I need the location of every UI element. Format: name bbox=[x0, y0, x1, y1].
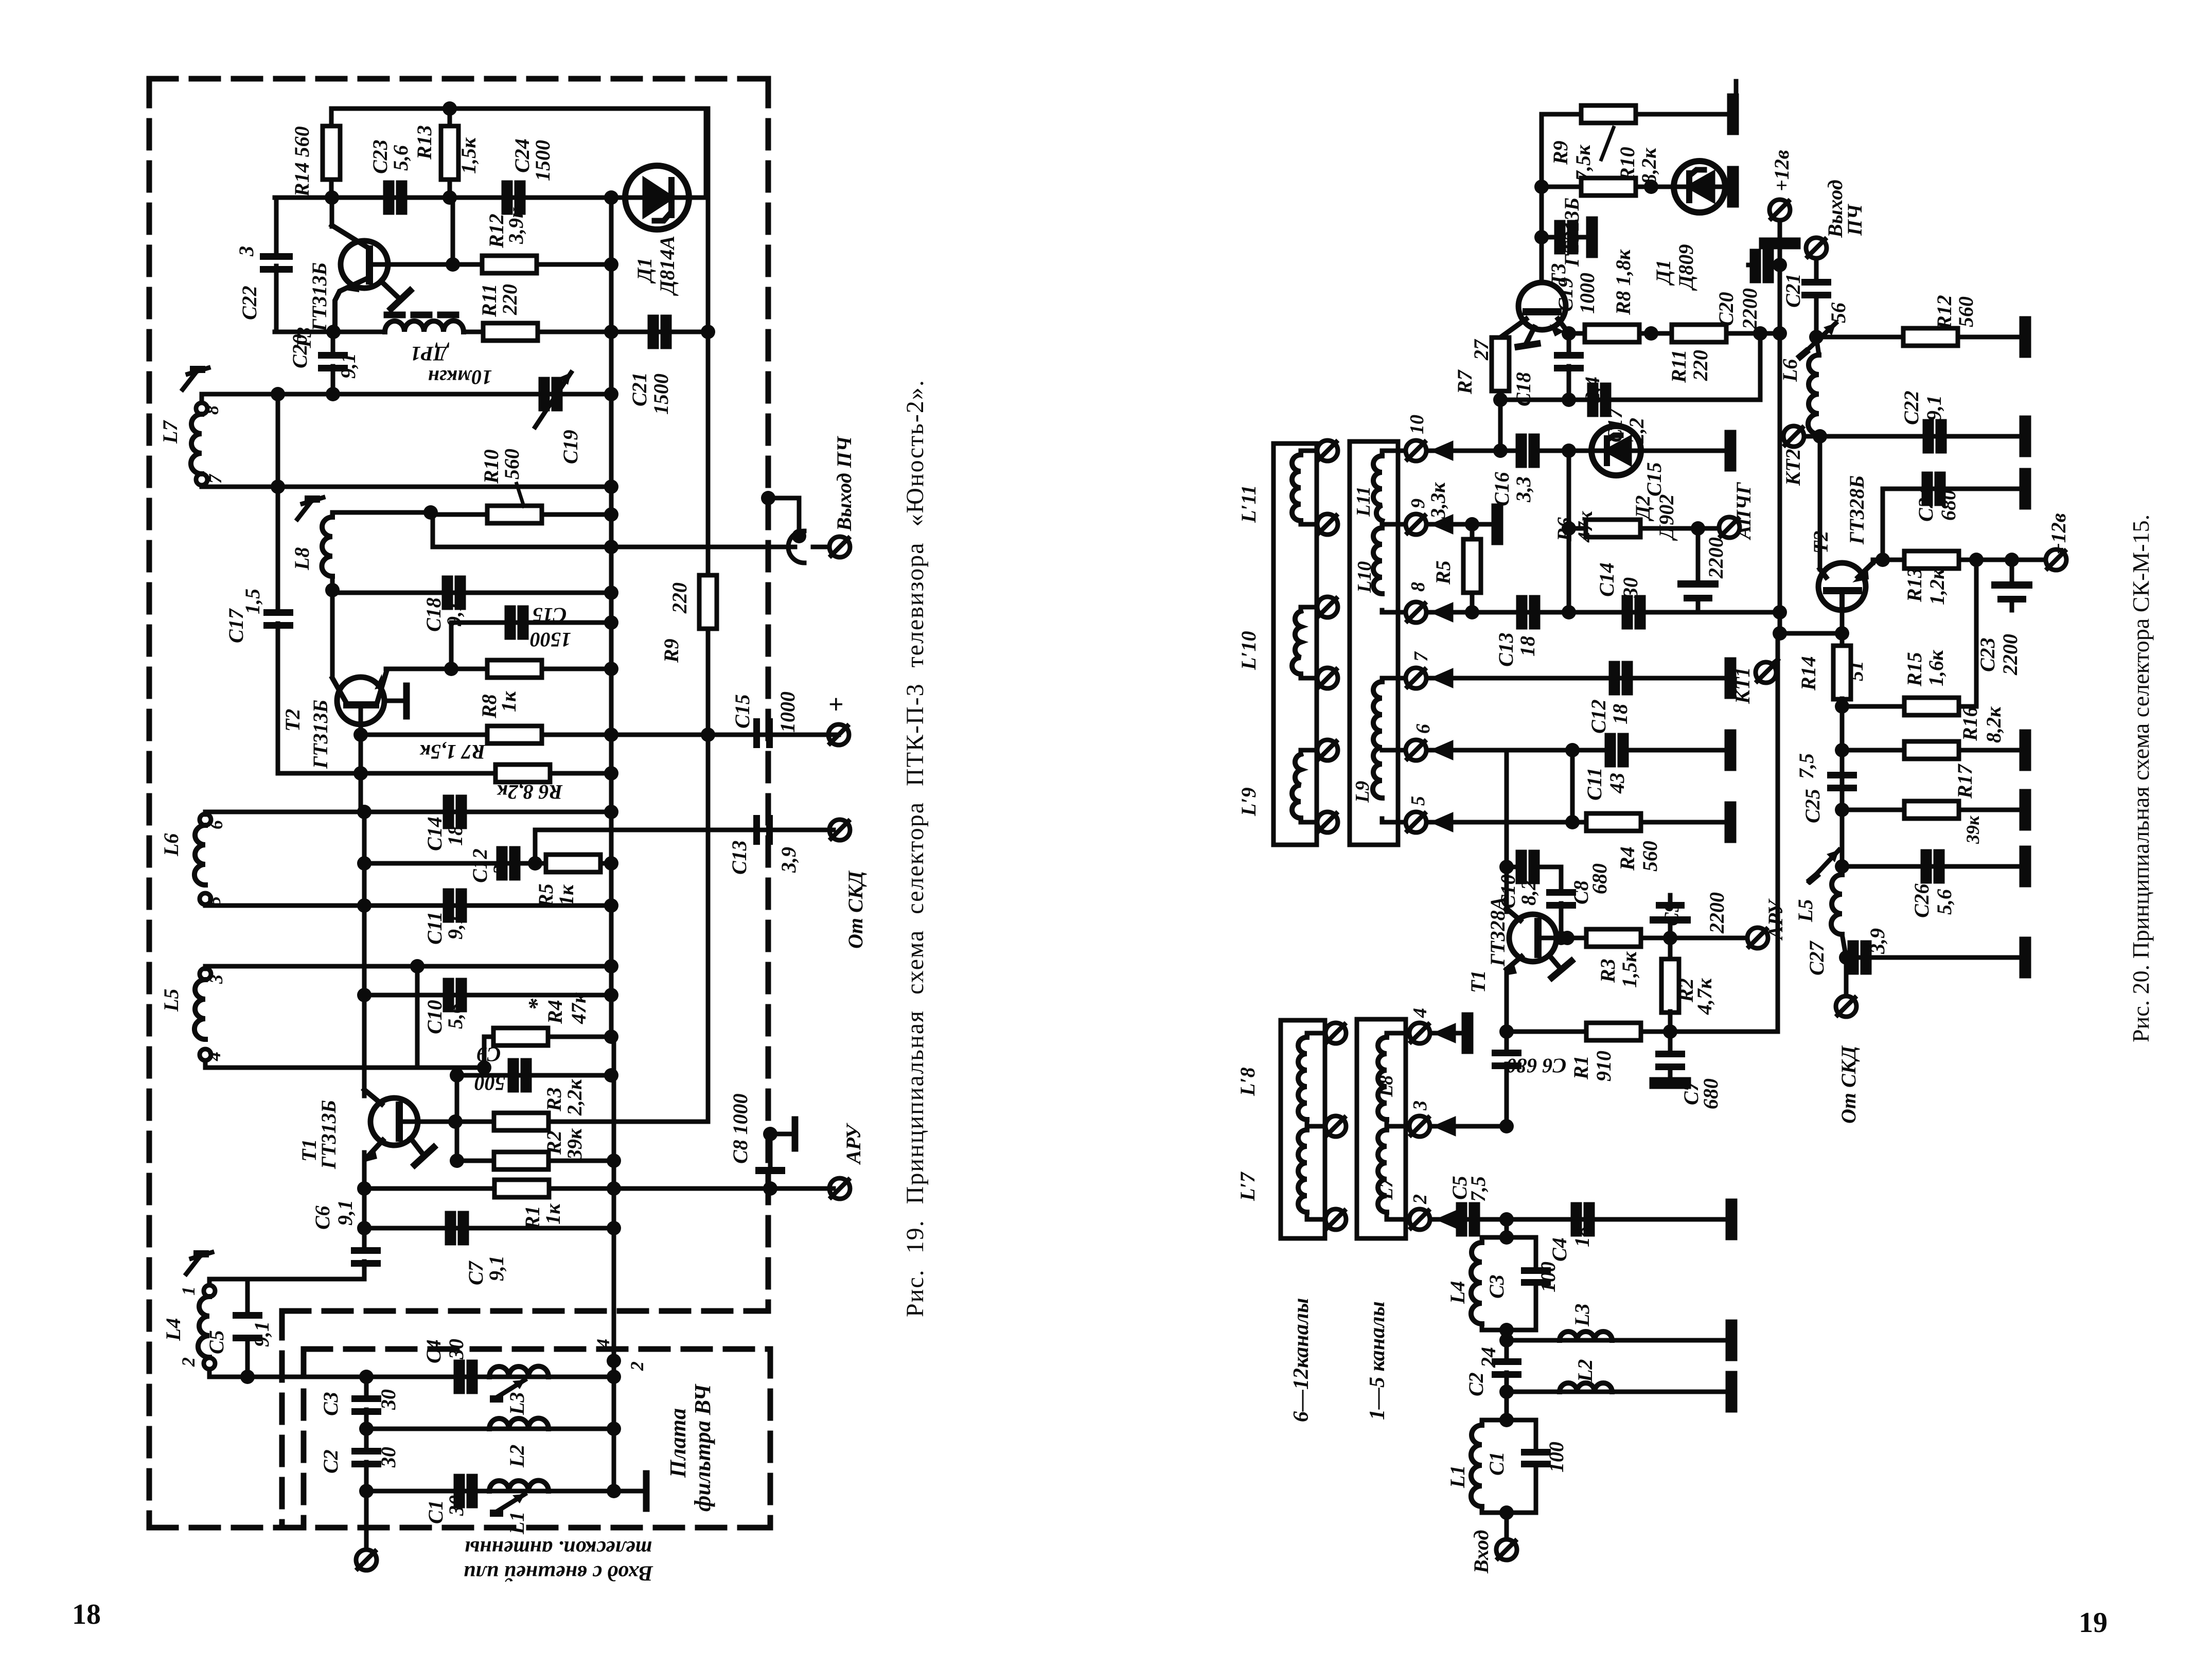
wire C9 line bbox=[457, 1073, 611, 1078]
wire +12в main vertical bbox=[1778, 220, 1782, 633]
capacitor C17 bbox=[263, 609, 293, 629]
svg-text:R3: R3 bbox=[1596, 959, 1619, 983]
svg-text:18: 18 bbox=[1570, 1227, 1594, 1247]
svg-text:5: 5 bbox=[204, 896, 224, 906]
svg-text:С5: С5 bbox=[205, 1330, 228, 1354]
svg-text:R5: R5 bbox=[534, 883, 557, 908]
capacitor C5 bbox=[245, 1279, 250, 1315]
capacitor C15 bbox=[1696, 528, 1701, 580]
capacitor C18 bbox=[1567, 333, 1571, 355]
resistor R9 bbox=[1581, 105, 1636, 123]
svg-text:L10: L10 bbox=[1354, 561, 1375, 593]
svg-text:R7 1,5к: R7 1,5к bbox=[419, 740, 486, 764]
svg-text:24: 24 bbox=[1477, 1347, 1500, 1368]
svg-text:2200: 2200 bbox=[1738, 288, 1761, 330]
svg-text:Д2: Д2 bbox=[1631, 495, 1654, 522]
svg-text:R17: R17 bbox=[1953, 763, 1976, 799]
svg-text:9,1: 9,1 bbox=[443, 601, 466, 627]
label R7 1,5к (rotated 180) bbox=[419, 740, 486, 764]
svg-text:220: 220 bbox=[668, 582, 691, 614]
svg-text:4,7к: 4,7к bbox=[1693, 978, 1716, 1015]
wire H1 top bus bbox=[331, 109, 706, 198]
svg-text:L2: L2 bbox=[505, 1445, 528, 1468]
svg-text:1500: 1500 bbox=[474, 1072, 516, 1095]
transistor T1 ГТ328А bbox=[1505, 909, 1571, 978]
capacitor C25 bbox=[1827, 772, 1857, 791]
wire to L4 term1 bbox=[209, 1279, 364, 1285]
svg-text:1,5к: 1,5к bbox=[1618, 951, 1641, 988]
wire C7 line bbox=[364, 1226, 611, 1231]
svg-text:L3: L3 bbox=[505, 1392, 528, 1415]
svg-text:С10: С10 bbox=[423, 1000, 446, 1034]
wire C16 Д2 line bbox=[1426, 449, 1520, 453]
wire L1 line bbox=[366, 1489, 614, 1494]
svg-text:8,2к: 8,2к bbox=[1982, 706, 2005, 743]
inductor L6 bbox=[194, 812, 211, 906]
svg-text:Вход: Вход bbox=[1470, 1530, 1493, 1574]
resistor R13 bbox=[448, 109, 452, 198]
svg-text:R10: R10 bbox=[480, 449, 503, 484]
vertical bus V11 right bbox=[706, 332, 711, 574]
svg-text:С9: С9 bbox=[477, 1043, 501, 1066]
svg-text:680: 680 bbox=[1699, 1078, 1722, 1109]
resistor R2 4,7к bbox=[1668, 938, 1673, 960]
svg-text:3,9: 3,9 bbox=[777, 847, 800, 873]
svg-text:L2: L2 bbox=[1573, 1359, 1597, 1382]
svg-text:R9: R9 bbox=[1549, 140, 1572, 165]
svg-text:С25: С25 bbox=[1801, 789, 1824, 823]
svg-text:18: 18 bbox=[72, 1599, 101, 1630]
capacitor C20 2200 bbox=[1770, 263, 1780, 268]
T2 emitter R14 bbox=[1840, 610, 1845, 646]
svg-text:С20: С20 bbox=[288, 334, 311, 368]
svg-text:100: 100 bbox=[1545, 1442, 1568, 1473]
wire C18 line bbox=[332, 591, 611, 595]
svg-text:1,5к: 1,5к bbox=[457, 137, 480, 174]
inner dashed box (Плата фильтра ВЧ) bbox=[304, 1346, 770, 1352]
svg-text:С9: С9 bbox=[1660, 902, 1683, 926]
diode Д2 Д902 bbox=[1591, 426, 1641, 475]
wire H2 diode line bbox=[275, 196, 706, 200]
wire V5 left riser bbox=[276, 394, 280, 612]
svg-text:3: 3 bbox=[489, 864, 512, 875]
svg-text:R9: R9 bbox=[660, 639, 683, 663]
svg-text:Рис. 20. Принципиальная схема: Рис. 20. Принципиальная схема селектора … bbox=[2128, 515, 2154, 1042]
capacitor C9 2200 bbox=[1668, 924, 1673, 938]
wire R12 line bbox=[1727, 336, 1816, 338]
svg-text:R6 8,2к: R6 8,2к bbox=[497, 781, 563, 804]
capacitor C3 bbox=[364, 1377, 369, 1398]
svg-text:С20: С20 bbox=[1714, 292, 1738, 326]
capacitor C20 bbox=[331, 332, 335, 355]
svg-text:телескоп. антенны: телескоп. антенны bbox=[465, 1536, 652, 1560]
svg-text:1500: 1500 bbox=[649, 374, 673, 415]
capacitor C2 bbox=[364, 1429, 369, 1451]
svg-text:100: 100 bbox=[1536, 1262, 1560, 1292]
wire R10 line bbox=[1539, 114, 1544, 282]
svg-text:2200: 2200 bbox=[1704, 537, 1727, 579]
wire R7 line bbox=[361, 733, 839, 737]
inductor L6 bbox=[1808, 355, 1819, 434]
svg-text:8,2: 8,2 bbox=[1517, 880, 1540, 906]
svg-text:8,2к: 8,2к bbox=[1637, 147, 1660, 184]
svg-text:С11: С11 bbox=[1583, 768, 1606, 801]
svg-text:С18: С18 bbox=[422, 597, 445, 632]
wire C24 branch bbox=[1883, 489, 2022, 560]
inductor L5 bbox=[1831, 875, 1842, 934]
label С6 680 (rotated 180) bbox=[1507, 1054, 1567, 1077]
svg-text:С12: С12 bbox=[1587, 699, 1610, 734]
svg-text:9,1: 9,1 bbox=[444, 914, 467, 939]
svg-text:L11: L11 bbox=[1353, 486, 1374, 517]
svg-text:Т2: Т2 bbox=[281, 709, 304, 732]
svg-text:3,9к: 3,9к bbox=[504, 207, 527, 244]
svg-text:18: 18 bbox=[444, 825, 467, 846]
capacitor C21 bbox=[650, 317, 669, 347]
svg-text:L3: L3 bbox=[1570, 1304, 1594, 1327]
wire C15 feedback line bbox=[451, 623, 611, 669]
svg-text:R12: R12 bbox=[1933, 295, 1956, 330]
svg-text:Плата: Плата bbox=[665, 1408, 691, 1478]
КТ1 bbox=[1756, 662, 1776, 683]
wire ∅5 R4 line bbox=[1426, 820, 1727, 825]
КТ2 bbox=[1783, 426, 1804, 447]
wire R1 АРУ line bbox=[364, 1186, 834, 1191]
wire ∅9 line bbox=[1426, 522, 1493, 527]
vertical T3base/C16 link bbox=[1498, 400, 1503, 451]
svg-text:Д902: Д902 bbox=[1655, 494, 1678, 541]
wire H3 oscillator line bbox=[275, 330, 385, 334]
label C15 1500 (rotated 180) bbox=[530, 604, 571, 651]
wire plus line bbox=[611, 734, 708, 735]
svg-text:56: 56 bbox=[1827, 303, 1850, 323]
wire L5-4 line bbox=[205, 1066, 484, 1070]
svg-text:R3: R3 bbox=[542, 1087, 565, 1112]
svg-text:3: 3 bbox=[206, 974, 226, 984]
svg-text:5,6: 5,6 bbox=[389, 145, 412, 171]
inductor L8 bbox=[297, 495, 323, 519]
svg-text:R14: R14 bbox=[1797, 656, 1820, 691]
svg-text:С14: С14 bbox=[423, 817, 446, 851]
svg-text:R2: R2 bbox=[542, 1130, 565, 1155]
wire R15 line bbox=[1842, 704, 1976, 709]
∅ Вход bbox=[1505, 1513, 1509, 1539]
svg-text:220: 220 bbox=[1689, 350, 1712, 381]
resistor R14 bbox=[329, 109, 334, 198]
svg-text:R5: R5 bbox=[1431, 560, 1455, 585]
wire C17 line bbox=[1500, 398, 1760, 402]
svg-text:R4: R4 bbox=[543, 1000, 567, 1024]
svg-text:С3: С3 bbox=[1485, 1274, 1508, 1299]
svg-text:30: 30 bbox=[1619, 577, 1642, 598]
variable capacitor C19 bbox=[541, 379, 560, 409]
svg-text:47к: 47к bbox=[1573, 510, 1597, 543]
wire T2 emitter line bbox=[1778, 631, 1842, 636]
wire R2 line bbox=[457, 1159, 611, 1163]
svg-text:30: 30 bbox=[445, 1339, 468, 1360]
vertical bus V10 bbox=[609, 198, 614, 1037]
capacitor C19 bbox=[1542, 235, 1559, 240]
wire to От СКД bbox=[535, 830, 834, 863]
svg-text:АРУ: АРУ bbox=[842, 1123, 865, 1165]
svg-text:51: 51 bbox=[1844, 661, 1867, 681]
inductor L5 bbox=[194, 966, 211, 1068]
wire ∅6 line / T1 collector bbox=[1426, 748, 1572, 753]
capacitor C6 bbox=[351, 1247, 381, 1267]
svg-text:С12: С12 bbox=[468, 848, 491, 883]
coil box lower-right L8 L7 bbox=[1357, 1019, 1406, 1238]
wire ∅2 line C5 C4 bbox=[1430, 1217, 1728, 1222]
svg-text:ГТ328Б: ГТ328Б bbox=[1845, 475, 1868, 545]
svg-text:ГТ313Б: ГТ313Б bbox=[317, 1100, 340, 1169]
wire T1 emitter drop bbox=[1505, 969, 1509, 1053]
svg-text:R13: R13 bbox=[413, 125, 436, 160]
svg-text:2,2: 2,2 bbox=[1625, 418, 1648, 444]
svg-text:30: 30 bbox=[377, 1389, 400, 1410]
callout R9 bbox=[1601, 128, 1614, 159]
svg-text:18: 18 bbox=[1608, 704, 1632, 724]
svg-text:3,9: 3,9 bbox=[1866, 928, 1889, 954]
svg-text:9,1: 9,1 bbox=[250, 1321, 273, 1347]
svg-text:Д809: Д809 bbox=[1674, 244, 1697, 291]
coax hook bbox=[788, 531, 804, 563]
svg-text:L7: L7 bbox=[1375, 1177, 1397, 1200]
svg-text:2: 2 bbox=[178, 1357, 199, 1367]
svg-text:L′7: L′7 bbox=[1236, 1171, 1259, 1201]
svg-text:1,2к: 1,2к bbox=[1925, 568, 1949, 605]
wire ∅7 C12 line bbox=[1426, 676, 1727, 681]
svg-text:560: 560 bbox=[1954, 296, 1977, 327]
capacitor C6 680 bbox=[1492, 1050, 1521, 1069]
svg-text:Выход ПЧ: Выход ПЧ bbox=[833, 436, 856, 531]
svg-text:R1: R1 bbox=[521, 1205, 544, 1230]
svg-text:2,2к: 2,2к bbox=[563, 1078, 586, 1116]
svg-text:6: 6 bbox=[206, 820, 226, 829]
tank L4 C3 bbox=[1505, 1219, 1509, 1237]
svg-text:R7: R7 bbox=[1453, 369, 1476, 395]
svg-text:7,5к: 7,5к bbox=[1571, 144, 1595, 181]
resistor R7 27 bbox=[1498, 338, 1503, 340]
wire R8 line bbox=[386, 667, 611, 671]
wire L2 line bbox=[1507, 1390, 1728, 1394]
wire C27 line bbox=[1846, 955, 2022, 960]
svg-text:9,1: 9,1 bbox=[337, 353, 360, 379]
svg-text:С22: С22 bbox=[238, 286, 261, 320]
resistor R10 bbox=[433, 512, 611, 517]
svg-text:R15: R15 bbox=[1903, 652, 1926, 687]
svg-text:9,1: 9,1 bbox=[333, 1200, 357, 1226]
svg-text:С21: С21 bbox=[628, 372, 651, 406]
svg-text:Т2: Т2 bbox=[1809, 531, 1832, 554]
svg-text:19: 19 bbox=[2079, 1607, 2108, 1639]
svg-text:С8 1000: С8 1000 bbox=[729, 1093, 752, 1164]
svg-text:1500: 1500 bbox=[530, 628, 571, 651]
resistor R5 bbox=[1470, 524, 1475, 542]
svg-text:L′10: L′10 bbox=[1237, 631, 1260, 670]
wire R3 АРУ line bbox=[1567, 936, 1747, 941]
svg-text:С14: С14 bbox=[1595, 562, 1618, 597]
svg-text:30: 30 bbox=[445, 1495, 468, 1516]
label R6 8,2к (rotated 180) bbox=[497, 781, 563, 804]
wire C22 line bbox=[1820, 434, 2022, 439]
wire R4 line bbox=[484, 1035, 611, 1039]
svg-text:С23: С23 bbox=[368, 139, 392, 174]
svg-text:7,5: 7,5 bbox=[1795, 753, 1818, 779]
svg-text:КТ2: КТ2 bbox=[1781, 449, 1804, 486]
capacitor C15 feedthrough on border bbox=[753, 718, 773, 748]
diode Д1 Д809 bbox=[1674, 161, 1725, 212]
svg-text:ПЧ: ПЧ bbox=[1843, 204, 1866, 236]
svg-text:L8: L8 bbox=[1375, 1075, 1397, 1097]
svg-text:7,5: 7,5 bbox=[1466, 1176, 1490, 1202]
transistor T2 ГТ328Б bbox=[1818, 563, 1873, 610]
svg-text:L5: L5 bbox=[1794, 899, 1817, 923]
wire R9 top line bbox=[1542, 112, 1581, 117]
svg-text:10мкгн: 10мкгн bbox=[428, 366, 492, 389]
svg-text:39к: 39к bbox=[1962, 815, 1983, 844]
svg-text:С15: С15 bbox=[1642, 462, 1666, 496]
svg-text:От СКД: От СКД bbox=[1837, 1045, 1860, 1124]
svg-text:3: 3 bbox=[1409, 1101, 1431, 1111]
wire C11 branch bbox=[1570, 750, 1575, 822]
dashed enclosure outer bbox=[149, 79, 770, 1528]
left page labels bbox=[158, 125, 867, 1585]
svg-text:С6: С6 bbox=[311, 1205, 334, 1230]
svg-text:7: 7 bbox=[1410, 651, 1432, 662]
svg-text:4: 4 bbox=[593, 1339, 613, 1349]
inductor L4 bbox=[198, 1285, 215, 1377]
wire R8 R11 line bbox=[1569, 331, 1780, 336]
svg-text:1000: 1000 bbox=[776, 691, 799, 733]
svg-text:8: 8 bbox=[1407, 582, 1429, 592]
capacitors C10 C8 bbox=[1507, 865, 1520, 870]
svg-text:3,3к: 3,3к bbox=[1426, 482, 1449, 519]
svg-text:1,6к: 1,6к bbox=[1924, 649, 1948, 686]
wire ∅3 line bbox=[1430, 1124, 1507, 1129]
capacitor C22 bbox=[260, 253, 293, 273]
wire R6 line H5 bbox=[278, 771, 611, 776]
svg-text:С7: С7 bbox=[464, 1260, 487, 1285]
svg-text:9,1: 9,1 bbox=[485, 1255, 508, 1281]
svg-text:Т1: Т1 bbox=[1466, 970, 1490, 993]
label Вход с внешней... (rotated 180) bbox=[464, 1536, 653, 1585]
svg-text:L′8: L′8 bbox=[1236, 1067, 1259, 1096]
wire C26 line + trimmer bbox=[1842, 864, 2022, 869]
svg-text:С15: С15 bbox=[533, 604, 567, 627]
svg-text:С13: С13 bbox=[1494, 632, 1517, 667]
svg-text:43: 43 bbox=[1605, 773, 1629, 794]
svg-text:Рис. 19. Принципиальная схема: Рис. 19. Принципиальная схема селектора … bbox=[901, 379, 929, 1317]
svg-text:Д1: Д1 bbox=[633, 258, 656, 284]
capacitor C23 2200 bbox=[2010, 560, 2014, 581]
∅ От СКД bbox=[1844, 957, 1849, 996]
wire H6 C14 line bbox=[205, 810, 611, 814]
svg-text:L′11: L′11 bbox=[1237, 485, 1260, 523]
transistor T3 ГТ313Б bbox=[1500, 282, 1569, 347]
svg-text:27: 27 bbox=[1470, 339, 1493, 361]
svg-text:ГТ313Б: ГТ313Б bbox=[309, 700, 332, 769]
svg-text:R4: R4 bbox=[1616, 846, 1639, 871]
svg-text:47к: 47к bbox=[567, 992, 590, 1024]
wire C11 line bbox=[205, 903, 611, 908]
vertical V9 mid bus bbox=[362, 813, 367, 1096]
coil box upper-right L11 L10 L9 bbox=[1350, 441, 1398, 845]
svg-text:680: 680 bbox=[1937, 490, 1960, 521]
svg-text:2200: 2200 bbox=[1705, 892, 1728, 934]
svg-text:R13: R13 bbox=[1903, 568, 1926, 602]
svg-text:С27: С27 bbox=[1805, 940, 1828, 976]
ground at L1 line bbox=[614, 1489, 644, 1494]
wire filter top line bbox=[209, 1375, 614, 1379]
capacitor C24 bbox=[504, 183, 523, 212]
svg-text:30: 30 bbox=[377, 1447, 400, 1468]
svg-text:R11: R11 bbox=[1667, 350, 1690, 383]
capacitor C2 24 bbox=[1505, 1340, 1509, 1361]
svg-text:С19: С19 bbox=[1554, 277, 1577, 312]
svg-text:6: 6 bbox=[1412, 724, 1434, 734]
wire bus2 bbox=[202, 485, 611, 489]
svg-text:9,1: 9,1 bbox=[1922, 395, 1945, 421]
wire C10 line bbox=[364, 993, 611, 998]
resistor R11 bbox=[483, 323, 538, 341]
right page labels bbox=[1236, 140, 2070, 1574]
svg-text:С10: С10 bbox=[1496, 874, 1519, 909]
ground R9 bbox=[1729, 96, 1737, 133]
svg-text:1000: 1000 bbox=[1576, 273, 1599, 314]
svg-text:560: 560 bbox=[1638, 841, 1661, 872]
∅ Выход ПЧ + C21 bbox=[1806, 238, 1827, 258]
svg-text:С4: С4 bbox=[1548, 1237, 1571, 1262]
svg-text:L4: L4 bbox=[1446, 1281, 1469, 1304]
wire R13 +12в line bbox=[1883, 558, 2046, 562]
svg-text:220: 220 bbox=[498, 284, 521, 315]
svg-text:С21: С21 bbox=[1781, 273, 1804, 308]
svg-text:С18: С18 bbox=[1512, 372, 1535, 406]
svg-text:С4: С4 bbox=[422, 1339, 445, 1363]
wire ∅4 line bbox=[1430, 1031, 1463, 1036]
svg-text:7: 7 bbox=[205, 473, 225, 484]
wire L5-3 line bbox=[205, 964, 611, 969]
svg-text:R10: R10 bbox=[1616, 147, 1639, 182]
svg-text:910: 910 bbox=[1592, 1051, 1615, 1081]
svg-text:С19: С19 bbox=[559, 430, 582, 464]
svg-text:3: 3 bbox=[235, 246, 258, 257]
svg-text:С24: С24 bbox=[510, 138, 534, 173]
svg-text:39к: 39к bbox=[563, 1128, 586, 1160]
svg-text:10: 10 bbox=[1406, 415, 1428, 434]
svg-text:АРУ: АРУ bbox=[1764, 898, 1787, 941]
wire C12/R5 line bbox=[364, 861, 611, 866]
svg-text:1к: 1к bbox=[555, 884, 578, 906]
wire R16 line bbox=[1842, 748, 2022, 753]
svg-text:5,6: 5,6 bbox=[1933, 889, 1956, 915]
svg-text:1к: 1к bbox=[541, 1203, 564, 1225]
svg-text:L8: L8 bbox=[290, 547, 313, 571]
svg-text:+12в: +12в bbox=[2047, 513, 2070, 555]
svg-text:+: + bbox=[822, 697, 851, 712]
wire ∅8 C13 C14 line bbox=[1426, 610, 1780, 615]
inductor L3 bbox=[489, 1366, 548, 1377]
svg-text:8: 8 bbox=[202, 405, 222, 415]
capacitor C13 feedthrough bbox=[753, 815, 773, 845]
svg-text:R1: R1 bbox=[1569, 1055, 1592, 1080]
svg-text:С22: С22 bbox=[1900, 391, 1923, 425]
svg-text:5,6: 5,6 bbox=[444, 1003, 467, 1029]
wire bus1 bbox=[202, 392, 611, 397]
svg-text:С3: С3 bbox=[319, 1392, 342, 1416]
svg-text:С6 680: С6 680 bbox=[1507, 1054, 1567, 1077]
svg-text:Д814А: Д814А bbox=[656, 236, 679, 296]
